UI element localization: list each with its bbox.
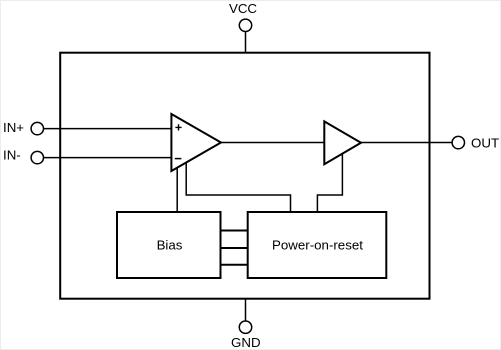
Power-on-reset block [248, 212, 387, 278]
svg-text:VCC: VCC [229, 1, 257, 16]
pin IN+ circle [31, 122, 43, 134]
wire VCC pin to box [245, 32, 247, 53]
wire U1 to Bias (vertical) [176, 165, 178, 213]
Bias block [117, 212, 221, 278]
IC outline box [60, 53, 429, 299]
buffer U2 [324, 121, 361, 164]
svg-text:OUT: OUT [471, 135, 499, 150]
wire IN- to U1 inverting input [44, 157, 173, 159]
pin VCC circle [239, 19, 251, 31]
wire IN+ to U1 noninverting input [44, 128, 173, 130]
svg-text:Power-on-reset: Power-on-reset [272, 237, 363, 252]
svg-text:Bias: Bias [157, 237, 183, 252]
wire U1 to Power-on-reset [186, 161, 290, 213]
svg-text:GND: GND [231, 335, 261, 350]
bus line 3 between Bias and Power-on-reset [220, 264, 249, 266]
pin IN- circle [31, 151, 43, 163]
pin GND circle [239, 321, 251, 333]
pin OUT circle [452, 136, 464, 148]
wire GND pin to box [245, 299, 247, 321]
wire U2 to Power-on-reset [317, 152, 342, 213]
wire U1 output to OUT [221, 142, 452, 144]
svg-text:IN-: IN- [3, 148, 21, 163]
bus line 2 between Bias and Power-on-reset [220, 247, 249, 249]
U1 plus label [175, 124, 181, 130]
op-amp U1 [171, 114, 221, 171]
svg-text:IN+: IN+ [3, 120, 24, 135]
bus line 1 between Bias and Power-on-reset [220, 230, 249, 232]
U1 minus label [175, 158, 182, 160]
